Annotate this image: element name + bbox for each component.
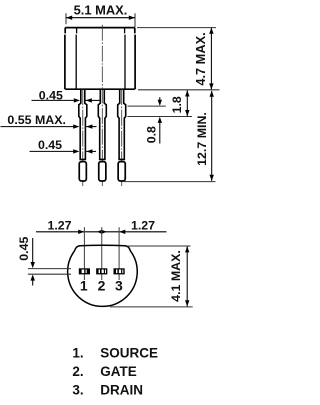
dim 4.1 arrow down — [185, 300, 189, 306]
svg-text:1.: 1. — [72, 345, 83, 360]
svg-text:4.1 MAX.: 4.1 MAX. — [169, 250, 183, 302]
dim 1.8 dimension line — [186, 90, 188, 116]
dim 0.45 upper opposing arrow — [86, 98, 92, 102]
lead 3 tip stub — [118, 162, 125, 181]
dim 0.45 lower opposing arrow — [86, 149, 92, 153]
dim 0.45 lower arrow right-pointing — [73, 149, 79, 153]
body inner mold line right — [124, 28, 126, 88]
centerline lead 3 — [121, 89, 123, 186]
svg-text:4.7 MAX.: 4.7 MAX. — [193, 32, 208, 85]
dim 4.1 arrow up — [185, 246, 189, 252]
dim 0.8 upper shaft and down arrow — [159, 97, 161, 101]
svg-text:SOURCE: SOURCE — [100, 345, 158, 360]
dim 0.55 arrow right-pointing — [73, 124, 79, 128]
dim 4.7 / 1.8 shared extension line bottom — [138, 89, 220, 91]
dim 0.55 leader — [1, 126, 75, 128]
svg-text:0.8: 0.8 — [145, 126, 159, 143]
lead 1 cross-section — [79, 268, 90, 274]
svg-text:0.55 MAX.: 0.55 MAX. — [7, 113, 66, 127]
dim 4.7 extension line top — [137, 27, 216, 29]
dim 12.7 arrow up — [210, 91, 214, 97]
package body outline (front view) — [65, 28, 135, 90]
dim 0.8 / 1.8 extension line bottom — [128, 116, 193, 118]
body inner mold line left — [75, 28, 77, 88]
dim 0.8 extension line top — [128, 105, 166, 107]
svg-text:1.8: 1.8 — [170, 96, 184, 113]
dim 0.45 upper leader — [32, 99, 75, 101]
dim 4.7 dimension line — [210, 28, 212, 90]
dim 5.1 arrow right — [129, 16, 135, 20]
lead 2 tip stub — [99, 162, 106, 181]
lead 2 cross-section — [96, 268, 107, 274]
dim 1.8 arrow down — [185, 110, 189, 116]
bottom view centerline lead2 — [101, 227, 103, 280]
dim 1.8 arrow up — [185, 90, 189, 96]
svg-text:2: 2 — [98, 277, 106, 293]
dim 5.1 arrow left — [66, 16, 72, 20]
svg-text:3: 3 — [115, 277, 123, 293]
svg-text:1.27: 1.27 — [47, 219, 71, 233]
lead tip extension line — [124, 181, 216, 183]
lead 1 profile — [79, 89, 87, 159]
dim 4.1 dimension line — [186, 246, 188, 306]
centerline lead 2 / body — [101, 25, 103, 186]
bottom view centerline lead1 — [83, 227, 85, 280]
lead 3 profile — [118, 89, 126, 159]
dim 1.27 arrow at lead1 — [78, 230, 84, 234]
svg-text:1: 1 — [80, 277, 88, 293]
dim 1.27 dimension line — [36, 231, 167, 233]
package outline (bottom view) — [68, 245, 138, 306]
svg-text:12.7 MIN.: 12.7 MIN. — [195, 112, 209, 166]
svg-text:GATE: GATE — [100, 364, 137, 379]
dim 5.1 dimension line — [66, 17, 135, 19]
dim 0.45 upper arrow right-pointing — [74, 98, 80, 102]
dim 4.7 arrow up — [209, 28, 213, 34]
dim 0.55 opposing arrow — [86, 124, 92, 128]
svg-text:3.: 3. — [72, 383, 83, 398]
lead 1 tip stub — [79, 162, 86, 181]
dim 0.45 bottom view extension lines — [28, 269, 71, 275]
dim 5.1 extension lines — [66, 13, 135, 27]
svg-text:2.: 2. — [72, 364, 83, 379]
dim 12.7 arrow down — [210, 175, 214, 181]
bottom view centerline lead3 — [118, 227, 120, 280]
svg-text:1.27: 1.27 — [131, 219, 155, 233]
dim 12.7 MIN dimension line — [211, 91, 213, 181]
svg-text:0.45: 0.45 — [17, 237, 31, 261]
lead 2 profile — [98, 89, 106, 159]
dim 0.45 lower leader — [30, 150, 75, 152]
dim 1.27 arrow at lead3 — [119, 230, 125, 234]
lead 3 cross-section — [114, 268, 125, 274]
dim 4.7 arrow down — [209, 83, 213, 89]
svg-text:5.1 MAX.: 5.1 MAX. — [74, 2, 128, 17]
dim 0.8 lower shaft and up arrow — [159, 122, 161, 144]
dim 1.27 center diamond at lead2 — [97, 230, 107, 234]
svg-text:DRAIN: DRAIN — [100, 383, 143, 398]
dim 4.1 MAX extension lines — [110, 246, 193, 307]
centerline lead 1 — [82, 89, 84, 186]
svg-text:0.45: 0.45 — [38, 138, 62, 152]
dim 0.45 bottom view shafts and arrows — [32, 238, 34, 262]
